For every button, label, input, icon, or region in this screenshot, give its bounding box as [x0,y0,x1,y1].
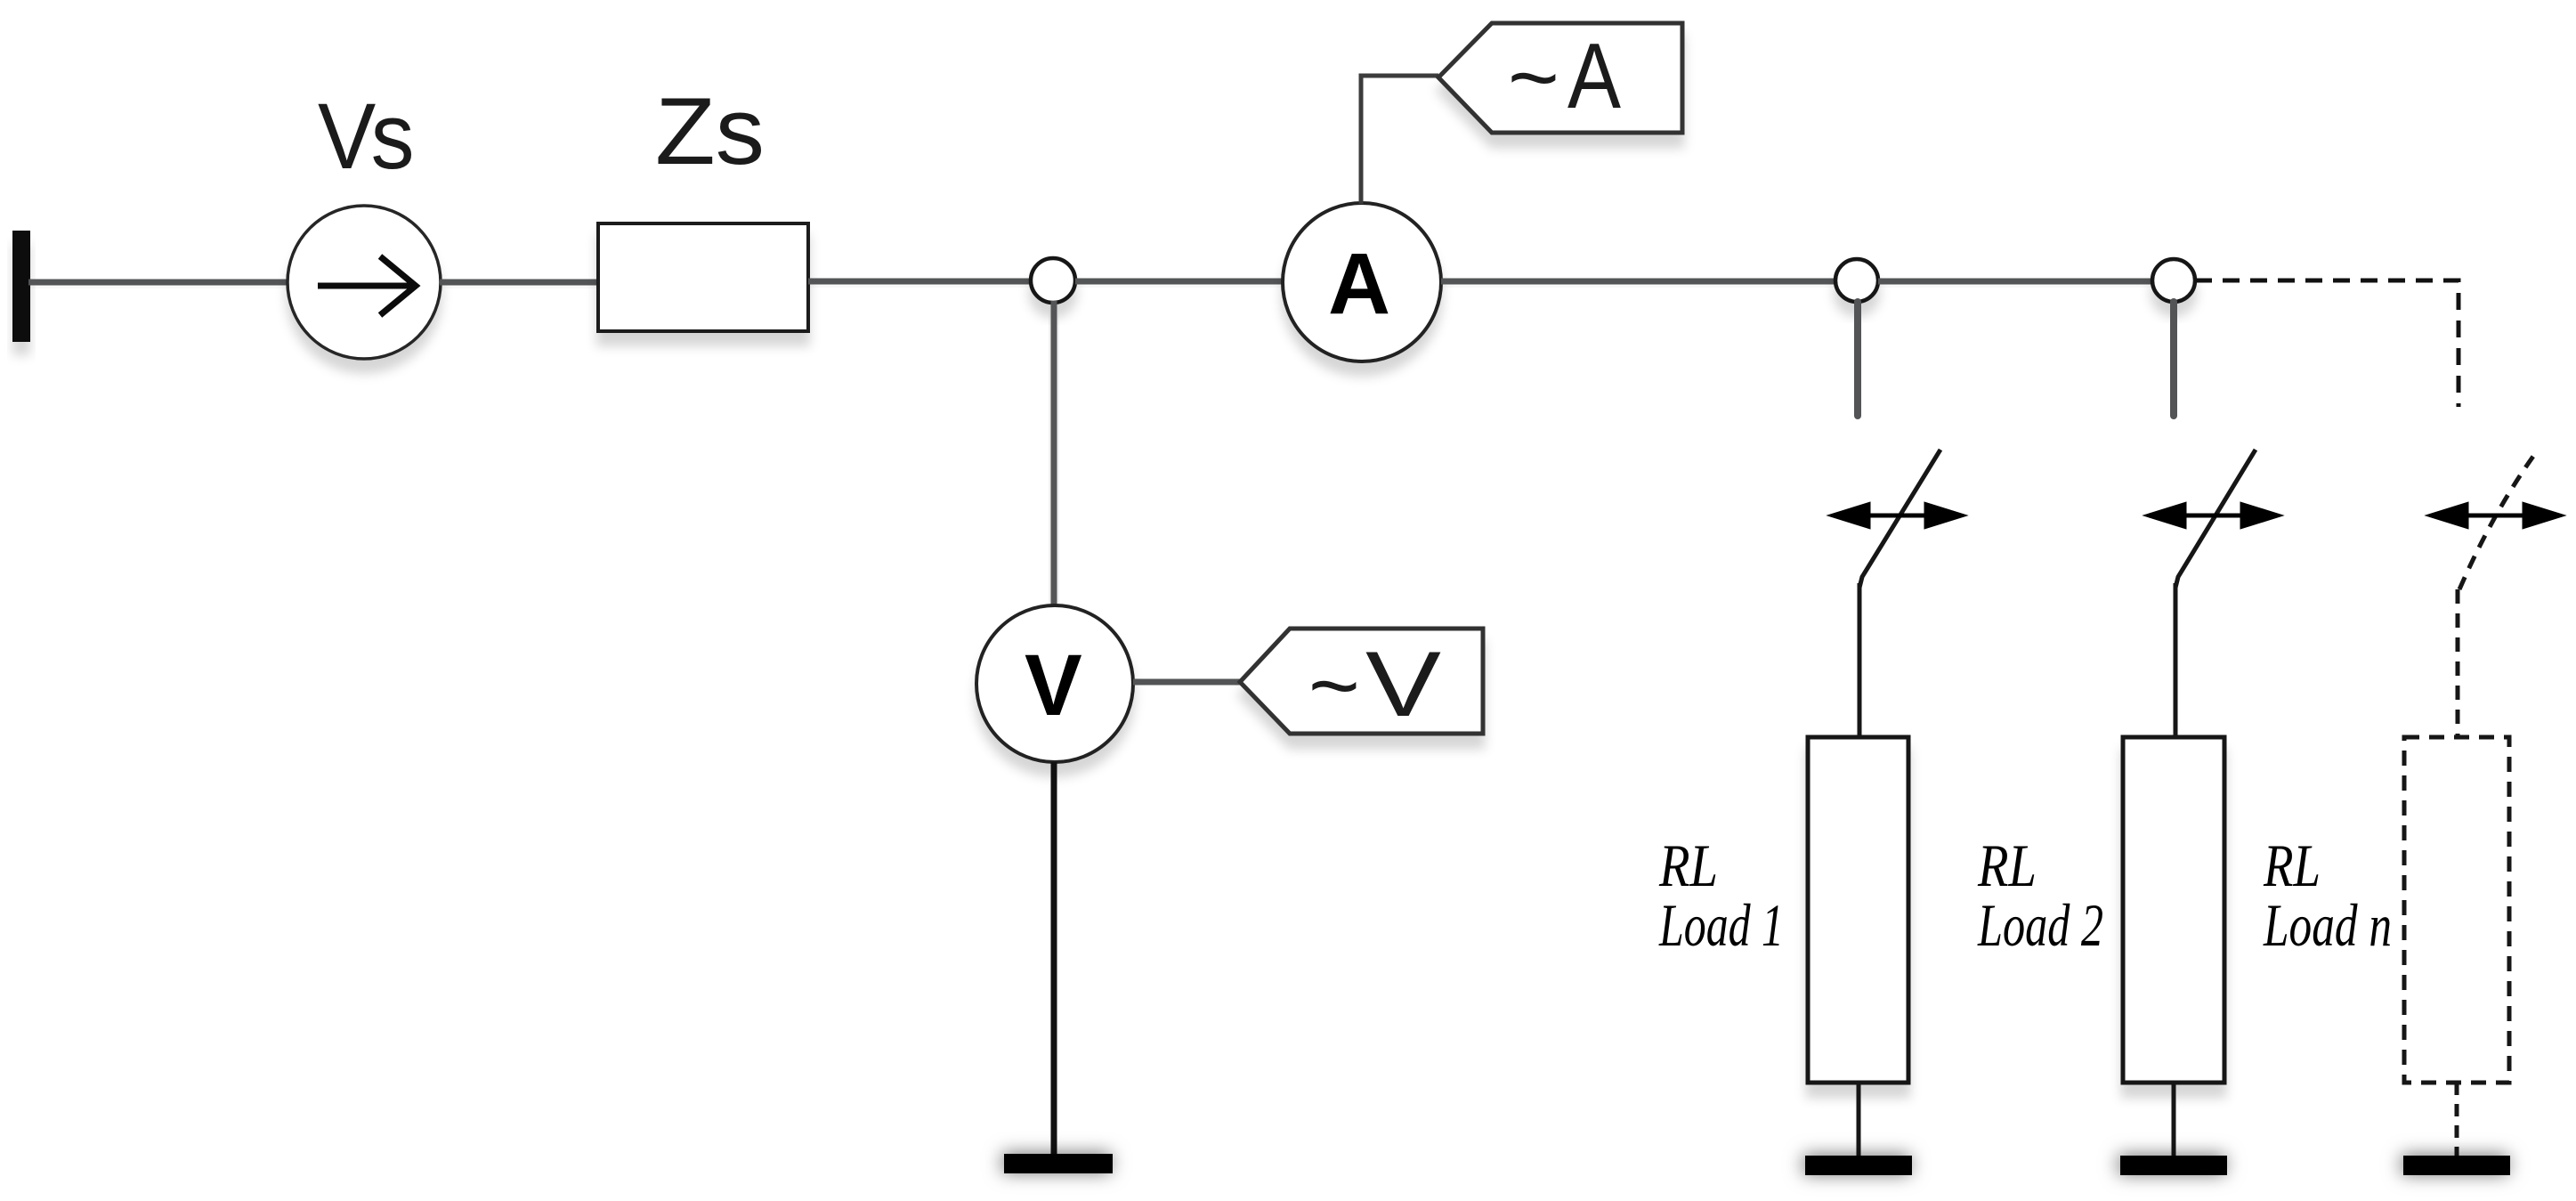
ground load 1 [1805,1156,1912,1175]
ammeter U-A circle [1283,203,1441,361]
flag tag ~V [1240,629,1483,734]
wire Zs to node [808,279,1033,285]
ground load n [2403,1156,2510,1175]
svg-text:Load 2: Load 2 [1977,891,2103,959]
load 2 wire resistor to ground [2172,1083,2176,1159]
load 2 stub wire [2170,302,2177,416]
junction node load 1 [1835,259,1878,302]
svg-text:RL: RL [1658,832,1718,899]
load 1 switch arrow [1827,502,1967,529]
load n dashed switch blade [2459,449,2539,589]
svg-text:Zs: Zs [655,77,765,184]
load 2 switch blade [2175,450,2256,588]
wire ammeter to junction 1 [1441,279,1837,285]
load 1 stub wire [1854,302,1861,416]
wire junction1 to junction2 [1878,279,2154,285]
load n dashed wire switch to resistor [2456,589,2460,739]
wire voltmeter to flag ~V [1133,679,1243,686]
dashed bus wire to load n [2195,280,2459,407]
node junction circle [1031,258,1075,303]
wire node down to voltmeter [1051,301,1057,607]
svg-text:A: A [1567,25,1622,128]
junction node load 2 [2152,259,2195,302]
resistor RL load 1 [1808,737,1908,1083]
flag tag ~A [1438,23,1682,133]
load n switch arrow [2426,502,2565,529]
resistor RL load 2 [2123,737,2224,1083]
load 1 wire resistor to ground [1857,1083,1861,1159]
load 2 wire switch to resistor [2174,583,2178,739]
load 1 switch blade [1859,450,1940,588]
svg-text:V: V [1365,633,1441,736]
wire ammeter up to flag ~A [1361,76,1438,204]
load 2 switch arrow [2143,502,2283,529]
svg-text:RL: RL [2263,832,2321,899]
ground under voltmeter [1004,1154,1113,1173]
wire node to ammeter [1075,279,1284,285]
svg-text:Vs: Vs [318,85,411,189]
svg-text:V: V [1025,637,1082,734]
voltage source arrow [318,256,416,315]
load 1 wire switch to resistor [1858,583,1862,739]
load n dashed wire resistor to ground [2455,1083,2459,1159]
resistor RL load n dashed [2404,737,2509,1083]
svg-text:Load 1: Load 1 [1658,891,1784,959]
svg-text:A: A [1328,235,1390,332]
svg-text:~: ~ [1308,636,1360,734]
wire terminal to Vs [28,280,290,286]
impedance Zs rectangle [598,223,808,331]
voltage source Vs circle [288,206,441,359]
svg-text:RL: RL [1977,832,2037,899]
terminal bar (source terminal) [12,231,30,342]
svg-text:~: ~ [1508,28,1559,126]
ground load 2 [2120,1156,2227,1175]
wire voltmeter to ground [1051,762,1057,1157]
wire Vs to Zs [440,280,600,286]
voltmeter U-V circle [976,605,1133,762]
svg-text:Load n: Load n [2263,891,2392,959]
